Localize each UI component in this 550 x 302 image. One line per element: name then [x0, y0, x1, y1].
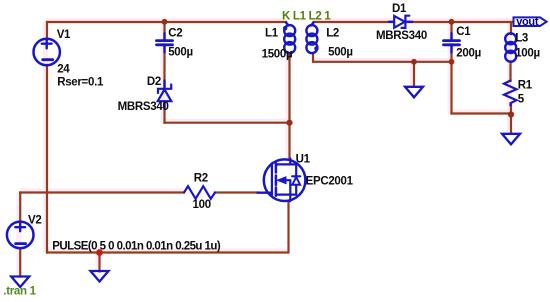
svg-text:100µ: 100µ	[515, 48, 540, 60]
svg-text:200µ: 200µ	[456, 48, 481, 60]
svg-text:5: 5	[518, 93, 525, 105]
svg-text:EPC2001: EPC2001	[306, 175, 354, 187]
svg-text:.tran 1: .tran 1	[3, 286, 36, 298]
svg-text:U1: U1	[296, 153, 311, 165]
svg-text:MBRS340: MBRS340	[118, 101, 169, 113]
svg-text:100: 100	[193, 199, 211, 211]
svg-text:D2: D2	[147, 76, 161, 88]
svg-text:1500µ: 1500µ	[262, 48, 293, 60]
svg-text:Rser=0.1: Rser=0.1	[57, 76, 104, 88]
svg-text:V2: V2	[28, 215, 41, 227]
svg-text:L3: L3	[515, 33, 528, 45]
svg-text:D1: D1	[392, 3, 407, 15]
svg-text:vout: vout	[516, 16, 539, 28]
svg-text:V1: V1	[57, 29, 71, 41]
svg-text:PULSE(0 5 0 0.01n 0.01n 0.25u: PULSE(0 5 0 0.01n 0.01n 0.25u 1u)	[52, 241, 221, 253]
svg-text:C2: C2	[168, 28, 182, 40]
svg-text:MBRS340: MBRS340	[376, 30, 427, 42]
svg-text:24: 24	[57, 63, 70, 75]
svg-text:K L1 L2 1: K L1 L2 1	[282, 10, 331, 22]
svg-text:R2: R2	[194, 172, 208, 184]
svg-text:R1: R1	[518, 80, 533, 92]
svg-text:L1: L1	[265, 28, 279, 40]
svg-text:C1: C1	[456, 26, 471, 38]
svg-text:500µ: 500µ	[168, 47, 193, 59]
svg-text:500µ: 500µ	[328, 47, 353, 59]
svg-text:L2: L2	[326, 28, 339, 40]
